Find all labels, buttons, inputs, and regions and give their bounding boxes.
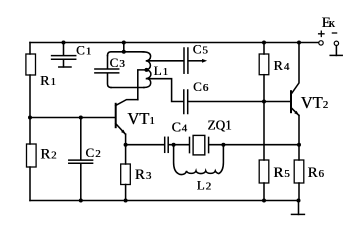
node bottom-R3 [124, 199, 128, 203]
resistor R4 [263, 43, 265, 55]
svg-text:VT1: VT1 [127, 109, 155, 128]
wire L1 tap [138, 70, 147, 100]
ground (under C1) [59, 66, 71, 68]
node VT1 emitter [124, 143, 128, 147]
resistor R2 [27, 144, 37, 167]
svg-text:VT2: VT2 [301, 93, 329, 112]
node bottom-C2 [79, 199, 83, 203]
arrow C5 output [202, 59, 207, 63]
node bottom-R6 [297, 199, 301, 203]
terminal + [319, 41, 323, 45]
node base-C2 [79, 116, 83, 120]
capacitor C5 wire [147, 60, 184, 62]
wire tank stub [123, 43, 125, 52]
node top-C1 [62, 41, 66, 45]
capacitor C1 [63, 43, 65, 56]
capacitor C4 [164, 137, 166, 152]
wire VT1 base [30, 117, 115, 119]
node C4-L2 [172, 143, 176, 147]
node VT2 emitter [297, 143, 301, 147]
resistor R1 [26, 54, 36, 75]
node top-VT2C [297, 41, 301, 45]
wire bottom rail [30, 200, 299, 202]
resistor R5 [259, 160, 269, 183]
svg-text:R3: R3 [135, 167, 152, 183]
svg-text:R2: R2 [40, 146, 56, 162]
node base-divider [28, 116, 32, 120]
wire tank top [108, 52, 144, 56]
svg-text:R4: R4 [273, 59, 289, 74]
capacitor C6 wire [147, 79, 184, 102]
svg-text:Ек: Ек [322, 15, 336, 31]
inductor L2 [174, 145, 224, 175]
plus sign [319, 31, 324, 36]
wire tank bottom [111, 87, 144, 89]
svg-text:C2: C2 [85, 145, 100, 160]
wire top rail [30, 42, 319, 44]
wire emitter row [126, 144, 165, 146]
arrow VT1 emitter [121, 130, 126, 135]
node R4-C6-base [262, 100, 266, 104]
svg-text:ZQ1: ZQ1 [207, 118, 231, 133]
svg-text:R6: R6 [308, 165, 325, 181]
node L1 tap [145, 68, 149, 72]
arrow VT2 emitter [294, 111, 299, 116]
ground (bottom right) [298, 201, 300, 215]
ground (under minus terminal) [335, 46, 337, 56]
transistor VT2 [290, 91, 292, 112]
transistor VT1 [115, 104, 117, 127]
svg-text:C1: C1 [76, 42, 91, 57]
resistor R6 [294, 160, 304, 183]
node ZQ1-L2 [221, 143, 225, 147]
svg-text:C6: C6 [193, 79, 209, 94]
inductor L1 [143, 52, 151, 88]
crystal ZQ1 [189, 137, 191, 152]
capacitor C2 [80, 118, 82, 160]
capacitor C3 [107, 56, 109, 69]
svg-text:C3: C3 [110, 55, 126, 70]
svg-text:L2: L2 [197, 178, 211, 193]
minus sign [332, 32, 336, 34]
svg-text:L1: L1 [154, 63, 168, 78]
node top-tank [122, 41, 126, 45]
wire left rail [29, 43, 31, 201]
svg-text:C4: C4 [172, 120, 188, 135]
terminal - [334, 41, 338, 45]
svg-text:C5: C5 [193, 42, 209, 57]
node top-R4 [262, 41, 266, 45]
resistor R3 [121, 164, 131, 185]
svg-text:R1: R1 [40, 74, 56, 89]
node tank-stub-bottom [122, 50, 126, 54]
svg-text:R5: R5 [273, 165, 290, 181]
node bottom-R5 [262, 199, 266, 203]
